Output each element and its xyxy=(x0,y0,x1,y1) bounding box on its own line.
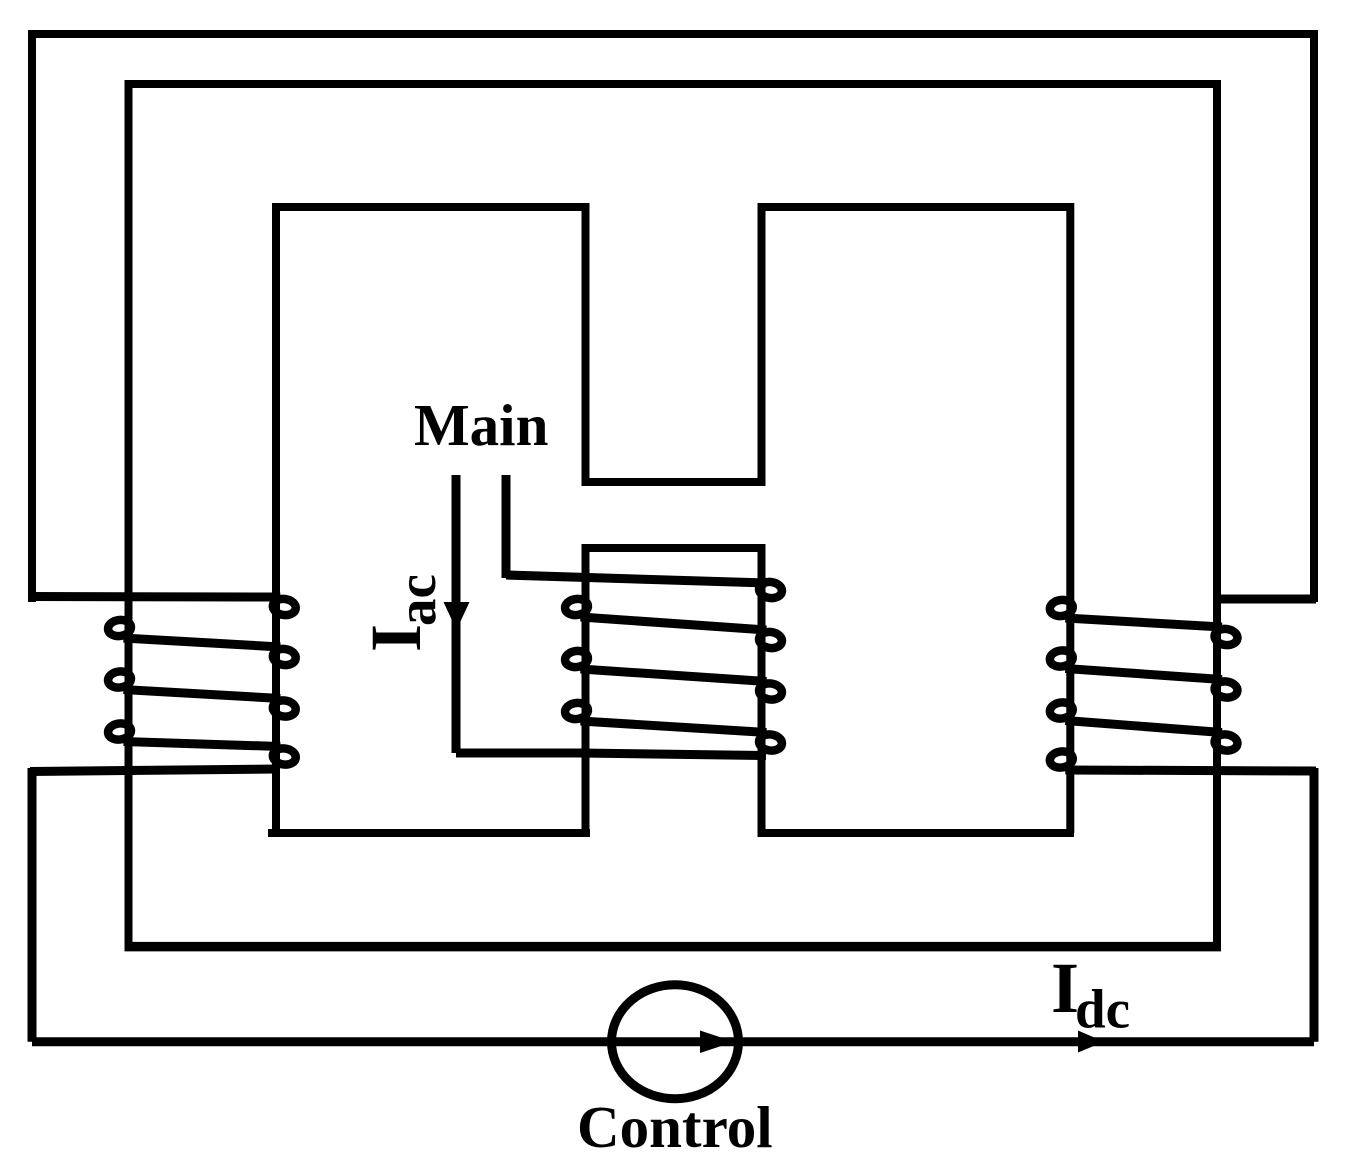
svg-text:Main: Main xyxy=(414,392,548,458)
svg-text:ac: ac xyxy=(386,574,447,626)
svg-text:Control: Control xyxy=(577,1094,773,1160)
svg-text:I: I xyxy=(356,624,436,652)
svg-text:dc: dc xyxy=(1075,979,1130,1040)
